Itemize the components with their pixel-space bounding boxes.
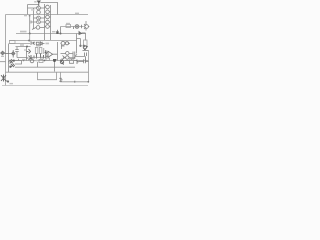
- wire mid rail A: [16, 33, 86, 35]
- wire mid drop: [54, 61, 56, 72]
- wire bank top box: [40, 3, 57, 15]
- transistor Q6: [31, 20, 45, 24]
- transistor Q15: [27, 49, 31, 54]
- resistor R5: [39, 48, 44, 55]
- node j30: [29, 33, 31, 35]
- resistor R2: [84, 40, 88, 46]
- node j60: [60, 33, 62, 35]
- resistor R3: [10, 41, 16, 44]
- wire bus 72: [6, 71, 89, 73]
- wire left aux vert: [8, 44, 10, 73]
- wire right res branch: [77, 34, 86, 54]
- wire bank left col: [33, 8, 35, 29]
- node j57: [56, 30, 58, 34]
- wire U loop: [38, 72, 57, 80]
- transistor Q23: [30, 58, 34, 63]
- label rail a: [20, 31, 27, 33]
- wire e4 stub: [61, 45, 63, 49]
- resistor R1: [66, 25, 71, 28]
- wire a5 stub: [0, 61, 6, 63]
- wire lower right: [61, 72, 89, 82]
- resistor R4: [35, 48, 38, 54]
- transistor Q26 cross: [1, 75, 8, 82]
- diode D3: [40, 42, 44, 45]
- transistor Q18: [61, 52, 73, 55]
- transistor Q25: [76, 60, 78, 65]
- wire left rail: [5, 15, 7, 86]
- wire stub x60: [60, 27, 62, 34]
- transistor Q28: [65, 42, 70, 45]
- label b4: [20, 44, 24, 46]
- wire band bus: [30, 56, 46, 58]
- node j8: [7, 80, 9, 82]
- transistor Q17: [45, 50, 47, 59]
- transistor Q10: [75, 25, 79, 29]
- transistor Q1b: [37, 10, 41, 14]
- wire mid rail B2: [9, 43, 30, 45]
- label a6: [10, 83, 14, 84]
- label c5: [36, 60, 39, 62]
- resistor R6: [39, 57, 43, 63]
- transistor Q27: [61, 41, 65, 45]
- capacitor C5 tick: [74, 25, 82, 29]
- transistor Q1: [36, 6, 45, 10]
- transistor Q12 arrow: [79, 32, 86, 35]
- transistor Q3: [46, 10, 51, 14]
- node j27: [26, 46, 28, 48]
- wire bank left bus: [29, 15, 31, 34]
- node bank join: [29, 15, 31, 16]
- transistor Q20: [83, 45, 88, 50]
- label e4: [61, 45, 65, 47]
- node j75: [74, 81, 76, 83]
- node j23: [23, 59, 25, 61]
- op-amp U1: [46, 51, 53, 57]
- wire opamp out: [53, 42, 58, 61]
- wire bus 66: [15, 66, 75, 68]
- capacitor C4: [78, 59, 88, 63]
- wire bottom rail: [2, 85, 88, 87]
- label d3: [52, 31, 56, 32]
- transistor Q16: [27, 56, 31, 61]
- transistor Q14: [9, 50, 16, 58]
- transistor Q13: [1, 51, 9, 56]
- transistor Q19: [63, 56, 73, 59]
- diode D1: [63, 56, 65, 60]
- transistor Q9: [45, 25, 51, 29]
- resistor R8: [46, 58, 50, 60]
- label b5: [22, 59, 26, 60]
- wire bank mid col: [44, 4, 46, 40]
- transistor Q7: [45, 20, 51, 24]
- wire top rail VCC: [6, 14, 89, 16]
- wire bus 60: [9, 60, 89, 62]
- node top arrow: [37, 1, 40, 6]
- relay K1: [65, 59, 77, 64]
- wire r1 row: [61, 26, 90, 28]
- capacitor C1: [15, 49, 18, 51]
- wire c5 drop: [37, 62, 39, 67]
- node j44: [44, 60, 46, 62]
- transistor Q5: [45, 15, 51, 19]
- transistor Q22: [10, 64, 15, 68]
- label c4: [36, 45, 41, 47]
- capacitor C2: [73, 52, 75, 60]
- transistor Q24: [60, 59, 63, 65]
- transistor Q2: [45, 5, 50, 9]
- capacitor C3: [80, 45, 89, 61]
- transistor Q21: [9, 59, 15, 63]
- inductor L1: [15, 59, 22, 64]
- label rail top right: [75, 13, 79, 15]
- transistor Q4: [34, 16, 45, 20]
- diode D2: [31, 41, 35, 45]
- wire bank left feed: [28, 5, 39, 15]
- wire bank right col2: [50, 5, 52, 40]
- label b1: [24, 15, 27, 16]
- node band c4: [31, 54, 44, 60]
- transistor Q11: [84, 24, 88, 29]
- node j88: [87, 81, 89, 83]
- wire right mirror drop: [85, 21, 87, 31]
- battery B1: [59, 78, 62, 81]
- resistor R7: [36, 42, 39, 45]
- transistor Q8: [32, 26, 45, 30]
- label b4c: [24, 49, 26, 50]
- label r1: [66, 23, 70, 25]
- node j54: [53, 59, 57, 62]
- wire right vert: [88, 51, 90, 82]
- label d3b: [46, 43, 50, 45]
- label b1b: [31, 9, 35, 10]
- wire f4 diag: [71, 54, 86, 60]
- label top: [34, 1, 36, 3]
- node j28: [28, 34, 30, 42]
- wire mid rail B: [9, 40, 77, 42]
- wire cap branch: [16, 47, 31, 61]
